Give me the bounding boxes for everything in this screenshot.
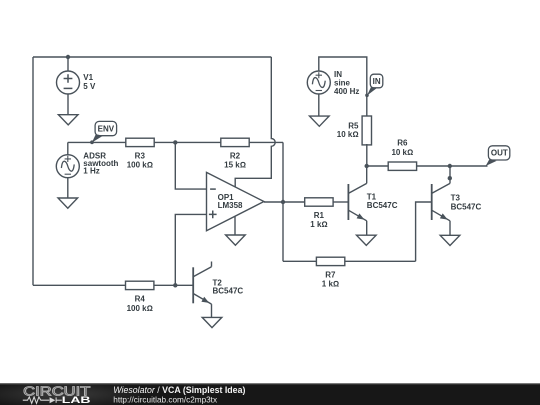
svg-text:R4: R4 (135, 295, 146, 304)
svg-text:T1: T1 (367, 193, 377, 202)
svg-text:V1: V1 (83, 73, 93, 82)
svg-text:T3: T3 (451, 193, 461, 202)
svg-text:400 Hz: 400 Hz (334, 87, 359, 96)
svg-text:BC547C: BC547C (367, 201, 398, 210)
svg-text:R6: R6 (397, 138, 408, 147)
svg-text:R1: R1 (314, 211, 325, 220)
svg-text:OUT: OUT (491, 148, 508, 157)
svg-text:ENV: ENV (98, 125, 115, 134)
svg-text:10 kΩ: 10 kΩ (337, 130, 359, 139)
svg-text:15 kΩ: 15 kΩ (224, 161, 246, 170)
svg-text:BC547C: BC547C (213, 287, 244, 296)
svg-text:LM358: LM358 (218, 201, 243, 210)
svg-text:1 Hz: 1 Hz (83, 167, 99, 176)
svg-text:1 kΩ: 1 kΩ (322, 279, 339, 288)
svg-text:LAB: LAB (62, 394, 91, 405)
svg-text:R3: R3 (135, 152, 146, 161)
svg-text:Wiesolator / VCA (Simplest Ide: Wiesolator / VCA (Simplest Idea) (113, 385, 245, 395)
svg-text:IN: IN (373, 77, 381, 86)
svg-text:100 kΩ: 100 kΩ (127, 161, 153, 170)
svg-text:R7: R7 (325, 270, 336, 279)
svg-text:R2: R2 (230, 152, 241, 161)
svg-text:100 kΩ: 100 kΩ (127, 304, 153, 313)
svg-text:1 kΩ: 1 kΩ (310, 220, 327, 229)
svg-text:BC547C: BC547C (451, 202, 482, 211)
svg-text:5 V: 5 V (83, 82, 96, 91)
svg-text:10 kΩ: 10 kΩ (391, 148, 413, 157)
svg-text:http://circuitlab.com/c2mp3tx: http://circuitlab.com/c2mp3tx (113, 395, 217, 404)
